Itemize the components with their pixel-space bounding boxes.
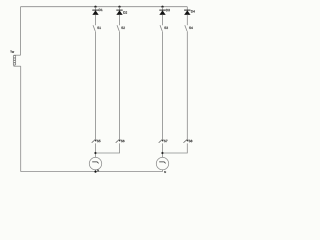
wire branch4 down and left to node B bbox=[163, 143, 188, 153]
label S4 bbox=[189, 27, 193, 29]
wire top rail bbox=[21, 6, 188, 8]
node pair join B bbox=[161, 152, 163, 154]
label S1 bbox=[97, 27, 101, 29]
wire branch1 diode to switch bbox=[95, 15, 97, 26]
wire branch4 top stub bbox=[186, 7, 188, 10]
wire branch3 arrow to lamp bbox=[162, 143, 164, 157]
wire branch3 diode to switch bbox=[162, 15, 164, 26]
node top junction branch 3 bbox=[161, 6, 163, 8]
wire lamp L1 bottom stub bbox=[95, 170, 97, 172]
wire branch1 main vertical bbox=[95, 31, 97, 139]
wire bottom rail bbox=[21, 171, 163, 173]
diode D2 bbox=[116, 10, 122, 15]
connector arrow S6 bbox=[116, 140, 121, 143]
switch S1 blade bbox=[93, 25, 95, 31]
wire left rail upper bbox=[20, 7, 22, 56]
label S6 bbox=[121, 140, 125, 142]
label S3 bbox=[164, 27, 168, 29]
wire branch2 diode to switch bbox=[119, 15, 121, 26]
connector arrow S7 bbox=[159, 140, 164, 143]
wire branch3 top stub bbox=[162, 7, 164, 10]
wire branch2 top stub bbox=[119, 7, 121, 10]
node lamp L1 to rail bbox=[94, 171, 96, 173]
wire transformer bottom lead bbox=[14, 65, 21, 67]
wire branch2 down and left to node A bbox=[96, 143, 120, 153]
wire transformer top lead bbox=[14, 54, 21, 56]
label S7 bbox=[164, 140, 168, 142]
label D4 bbox=[191, 10, 195, 12]
wire left rail lower bbox=[20, 66, 22, 171]
diode D4 bbox=[184, 10, 190, 15]
label D1 bbox=[99, 9, 103, 11]
switch S4 blade bbox=[185, 25, 187, 31]
node top junction branch 2 bbox=[118, 6, 120, 8]
wire branch1 arrow to lamp bbox=[95, 143, 97, 157]
label L1 bbox=[97, 170, 98, 172]
node pair join A bbox=[94, 152, 96, 154]
diode D1 bbox=[92, 10, 98, 15]
label D2 bbox=[123, 11, 127, 13]
label L2 bbox=[164, 171, 165, 173]
label S2 bbox=[121, 27, 125, 29]
node top junction branch 1 bbox=[94, 6, 96, 8]
wire branch1 top stub bbox=[95, 7, 97, 10]
label S5 bbox=[97, 140, 101, 142]
wire lamp L2 bottom stub bbox=[162, 170, 164, 172]
connector arrow S8 bbox=[184, 140, 189, 143]
switch S2 blade bbox=[117, 25, 119, 31]
connector arrow S5 bbox=[92, 140, 97, 143]
diode D3 bbox=[159, 10, 165, 15]
inductor T1 winding bbox=[13, 55, 16, 66]
label T1 bbox=[10, 51, 14, 53]
wire branch3 main vertical bbox=[162, 31, 164, 139]
lamp L2 bbox=[156, 157, 168, 169]
lamp L1 bbox=[89, 157, 101, 169]
label D3 bbox=[166, 9, 170, 11]
wire branch2 main vertical bbox=[119, 31, 121, 139]
label S8 bbox=[189, 140, 193, 142]
wire branch4 main vertical bbox=[186, 31, 188, 139]
switch S3 blade bbox=[160, 25, 162, 31]
wire branch4 diode to switch bbox=[186, 15, 188, 26]
